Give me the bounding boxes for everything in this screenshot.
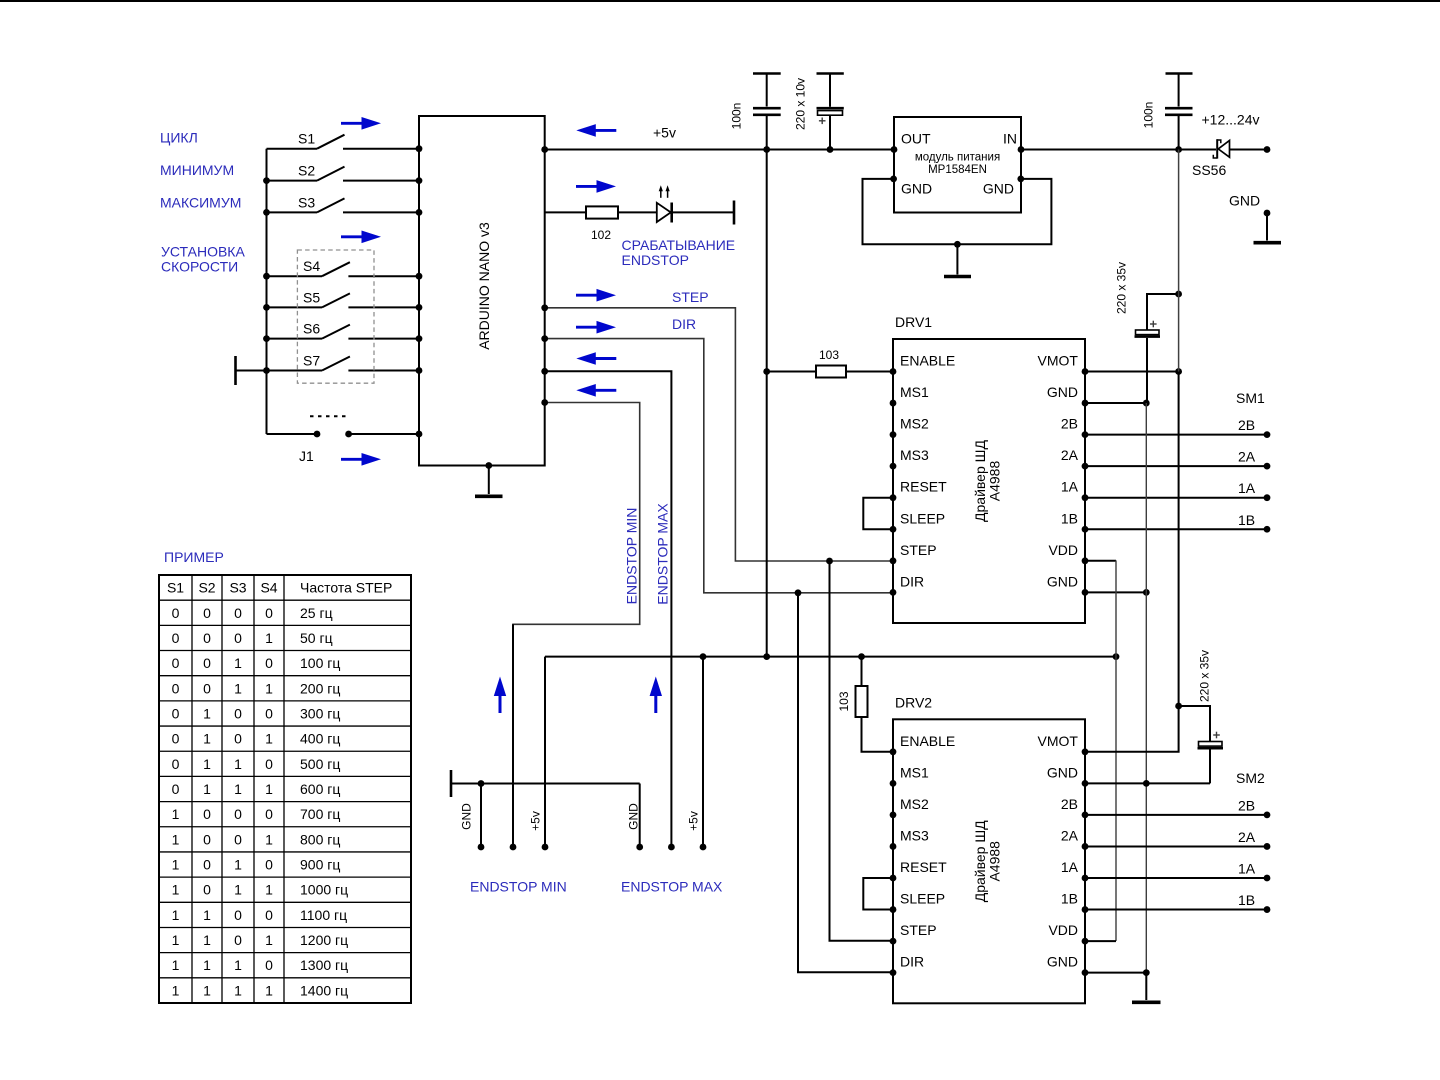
svg-text:1100 гц: 1100 гц	[300, 907, 347, 923]
svg-text:1: 1	[203, 907, 211, 923]
svg-text:1: 1	[172, 831, 180, 847]
svg-text:DIR: DIR	[672, 316, 696, 332]
connector SM1	[1236, 390, 1265, 528]
svg-text:800 гц: 800 гц	[300, 831, 340, 847]
svg-text:GND: GND	[1229, 193, 1260, 209]
svg-text:ENDSTOP MIN: ENDSTOP MIN	[470, 879, 567, 895]
wire DRV2 VDD	[1085, 940, 1116, 942]
svg-text:GND: GND	[901, 181, 932, 197]
wire DRV2 VMOT	[1085, 703, 1182, 752]
svg-text:1: 1	[234, 781, 242, 797]
label СРАБАТЫВАНИЕ ENDSTOP	[622, 237, 736, 268]
svg-text:1: 1	[234, 882, 242, 898]
svg-text:ENABLE: ENABLE	[900, 733, 955, 749]
wire DRV2 1A to SM2	[1085, 875, 1270, 882]
svg-text:J1: J1	[299, 448, 314, 464]
svg-text:MS2: MS2	[900, 796, 929, 812]
svg-text:1: 1	[265, 680, 273, 696]
svg-text:S1: S1	[298, 131, 315, 147]
wire DRV1 GND 2	[1085, 589, 1150, 596]
svg-text:S3: S3	[298, 194, 315, 210]
svg-text:0: 0	[265, 957, 273, 973]
svg-text:1400 гц: 1400 гц	[300, 982, 348, 998]
svg-text:OUT: OUT	[901, 131, 931, 147]
wire GND net	[1145, 403, 1147, 972]
wire DRV2 1B to SM2	[1085, 906, 1270, 913]
label ЦИКЛ	[160, 130, 198, 146]
svg-text:0: 0	[172, 680, 180, 696]
wire DIR link DRV1-DRV2	[795, 589, 893, 972]
svg-text:103: 103	[837, 691, 851, 711]
svg-text:+5v: +5v	[687, 811, 701, 831]
arrow at J1	[341, 453, 381, 466]
svg-text:0: 0	[265, 806, 273, 822]
svg-text:1200 гц: 1200 гц	[300, 932, 348, 948]
svg-text:модуль питания: модуль питания	[915, 152, 1000, 164]
svg-text:S5: S5	[303, 289, 320, 305]
label ENDSTOP MIN vertical	[623, 508, 639, 605]
svg-text:103: 103	[819, 348, 839, 362]
svg-text:1: 1	[265, 831, 273, 847]
svg-text:VDD: VDD	[1048, 922, 1078, 938]
svg-text:ENABLE: ENABLE	[900, 353, 955, 369]
svg-text:220 x 35v: 220 x 35v	[1115, 262, 1129, 314]
svg-text:SM2: SM2	[1236, 770, 1265, 786]
svg-text:0: 0	[234, 932, 242, 948]
svg-text:1: 1	[265, 982, 273, 998]
svg-text:DRV1: DRV1	[895, 314, 932, 330]
svg-text:0: 0	[172, 781, 180, 797]
svg-text:VDD: VDD	[1048, 542, 1078, 558]
svg-text:100n: 100n	[730, 103, 744, 130]
svg-text:GND: GND	[1047, 764, 1078, 780]
svg-text:100n: 100n	[1142, 102, 1156, 129]
switch S7	[267, 353, 423, 374]
connector ENDSTOP MAX	[627, 657, 707, 851]
svg-text:1: 1	[203, 957, 211, 973]
svg-text:0: 0	[234, 831, 242, 847]
svg-text:1: 1	[203, 705, 211, 721]
svg-text:1: 1	[172, 882, 180, 898]
svg-text:DIR: DIR	[900, 954, 924, 970]
svg-text:0: 0	[265, 756, 273, 772]
resistor R1 102	[545, 206, 657, 242]
wire DRV1 VDD	[1085, 560, 1116, 562]
svg-text:УСТАНОВКА: УСТАНОВКА	[161, 244, 245, 260]
svg-text:50 гц: 50 гц	[300, 630, 333, 646]
svg-text:A4988: A4988	[987, 461, 1003, 502]
arrow endstop min in	[576, 384, 616, 397]
svg-text:500 гц: 500 гц	[300, 756, 340, 772]
svg-text:0: 0	[172, 756, 180, 772]
svg-text:0: 0	[265, 605, 273, 621]
svg-text:ARDUINO NANO v3: ARDUINO NANO v3	[476, 222, 492, 350]
svg-text:2B: 2B	[1238, 417, 1255, 433]
svg-text:MS1: MS1	[900, 764, 929, 780]
svg-text:MS3: MS3	[900, 827, 929, 843]
label +5v	[653, 125, 676, 141]
svg-text:0: 0	[203, 680, 211, 696]
arrow endstop min up	[494, 677, 506, 714]
svg-text:100 гц: 100 гц	[300, 655, 340, 671]
svg-text:25 гц: 25 гц	[300, 605, 333, 621]
svg-text:MS1: MS1	[900, 384, 929, 400]
svg-text:1: 1	[172, 932, 180, 948]
svg-text:2B: 2B	[1061, 416, 1078, 432]
svg-text:0: 0	[234, 907, 242, 923]
capacitor C2 220 x 10v	[794, 74, 844, 150]
label ENDSTOP MIN	[470, 879, 567, 895]
svg-text:0: 0	[203, 882, 211, 898]
svg-text:MS2: MS2	[900, 416, 929, 432]
svg-text:1A: 1A	[1238, 861, 1256, 877]
svg-text:+12...24v: +12...24v	[1202, 112, 1260, 128]
svg-text:DRV2: DRV2	[895, 694, 932, 710]
resistor R3 103	[837, 657, 893, 752]
svg-text:2A: 2A	[1238, 449, 1256, 465]
svg-text:1: 1	[234, 756, 242, 772]
wire DRV1 2B to SM1	[1085, 431, 1270, 438]
svg-text:GND: GND	[1047, 573, 1078, 589]
wire DRV1 VMOT	[1085, 368, 1182, 375]
svg-text:2A: 2A	[1238, 829, 1256, 845]
svg-text:MS3: MS3	[900, 447, 929, 463]
ground below module	[944, 244, 971, 276]
svg-text:1: 1	[203, 932, 211, 948]
svg-text:2A: 2A	[1061, 827, 1079, 843]
svg-text:+5v: +5v	[529, 811, 543, 831]
svg-text:S1: S1	[167, 580, 184, 596]
capacitor C4 220 x 35v	[1115, 262, 1183, 403]
capacitor C5 220 x 35v	[1179, 650, 1223, 783]
svg-text:DIR: DIR	[900, 573, 924, 589]
svg-text:0: 0	[172, 731, 180, 747]
wire DRV2 GND 2	[1085, 969, 1150, 976]
svg-text:1: 1	[265, 781, 273, 797]
switch S2	[267, 163, 423, 184]
LED D2	[657, 185, 734, 222]
svg-text:700 гц: 700 гц	[300, 806, 340, 822]
svg-text:1: 1	[234, 857, 242, 873]
IC U2 power module MP1584EN	[890, 117, 1024, 213]
svg-text:0: 0	[203, 605, 211, 621]
svg-text:STEP: STEP	[900, 922, 937, 938]
svg-text:1: 1	[265, 882, 273, 898]
svg-text:VMOT: VMOT	[1038, 733, 1079, 749]
label УСТАНОВКА СКОРОСТИ	[161, 244, 245, 275]
svg-text:0: 0	[265, 705, 273, 721]
wire DRV1 1A to SM1	[1085, 494, 1270, 501]
svg-text:IN: IN	[1003, 131, 1017, 147]
svg-text:220 x 35v: 220 x 35v	[1198, 650, 1212, 702]
svg-text:0: 0	[234, 605, 242, 621]
svg-text:200 гц: 200 гц	[300, 680, 340, 696]
svg-text:1: 1	[234, 655, 242, 671]
IC U1 ARDUINO NANO v3	[419, 116, 545, 466]
label +12...24v	[1202, 112, 1260, 128]
svg-text:1: 1	[234, 680, 242, 696]
svg-text:SM1: SM1	[1236, 390, 1265, 406]
label STEP	[672, 289, 709, 305]
arrow endstop max up	[650, 677, 662, 714]
wire +5v distribution	[545, 653, 1119, 660]
svg-text:1: 1	[172, 982, 180, 998]
svg-text:0: 0	[172, 630, 180, 646]
svg-text:Частота STEP: Частота STEP	[300, 580, 392, 596]
IC DRV1 A4988	[863, 314, 1088, 623]
svg-text:RESET: RESET	[900, 859, 947, 875]
svg-text:220 x 10v: 220 x 10v	[794, 78, 808, 130]
wire STEP link DRV1-DRV2	[826, 558, 893, 941]
svg-text:1: 1	[172, 957, 180, 973]
svg-text:GND: GND	[1047, 384, 1078, 400]
svg-text:1B: 1B	[1061, 510, 1078, 526]
svg-text:400 гц: 400 гц	[300, 731, 340, 747]
ground below Arduino	[475, 462, 503, 496]
arrow endstop max in	[576, 352, 616, 365]
arrow on +5v rail	[576, 124, 616, 137]
svg-text:0: 0	[265, 907, 273, 923]
wire +5v feed down	[763, 150, 770, 657]
wire DRV2 2B to SM2	[1085, 812, 1270, 819]
wire DRV2 GND	[1085, 780, 1210, 787]
svg-text:0: 0	[203, 857, 211, 873]
svg-text:СКОРОСТИ: СКОРОСТИ	[161, 259, 238, 275]
terminal GND input	[1229, 193, 1281, 243]
dashed box S4-S7	[297, 250, 374, 383]
wire DRV1 2A to SM1	[1085, 463, 1270, 470]
svg-text:0: 0	[234, 806, 242, 822]
jumper J1	[267, 416, 423, 464]
terminal LED cathode	[733, 201, 736, 225]
label ENDSTOP MAX vertical	[654, 503, 670, 605]
svg-text:GND: GND	[983, 181, 1014, 197]
svg-text:ЦИКЛ: ЦИКЛ	[160, 130, 198, 146]
svg-text:1: 1	[265, 630, 273, 646]
svg-text:0: 0	[203, 831, 211, 847]
svg-text:S2: S2	[198, 580, 215, 596]
svg-text:1: 1	[234, 957, 242, 973]
svg-text:ПРИМЕР: ПРИМЕР	[164, 549, 224, 565]
switch S5	[267, 289, 423, 310]
svg-text:S3: S3	[229, 580, 246, 596]
svg-text:МИНИМУМ: МИНИМУМ	[160, 162, 234, 178]
arrow above S1	[341, 117, 381, 130]
svg-text:SLEEP: SLEEP	[900, 891, 945, 907]
svg-text:+5v: +5v	[653, 125, 676, 141]
svg-text:GND: GND	[627, 803, 641, 830]
svg-text:0: 0	[234, 630, 242, 646]
wire VMOT net	[1178, 150, 1180, 707]
label МАКСИМУМ	[160, 195, 241, 211]
diode D1 SS56 schottky	[1192, 139, 1270, 178]
svg-text:МАКСИМУМ: МАКСИМУМ	[160, 195, 241, 211]
wire DRV1 GND	[1085, 400, 1150, 407]
svg-text:0: 0	[234, 731, 242, 747]
svg-text:600 гц: 600 гц	[300, 781, 340, 797]
terminal common input	[236, 356, 267, 385]
switch S4	[267, 258, 423, 279]
wire DRV1 1B to SM1	[1085, 526, 1270, 533]
label ENDSTOP MAX	[621, 879, 723, 895]
svg-text:СРАБАТЫВАНИЕ: СРАБАТЫВАНИЕ	[622, 237, 736, 253]
svg-text:0: 0	[265, 655, 273, 671]
svg-text:1B: 1B	[1061, 891, 1078, 907]
wire VDD net	[1115, 560, 1117, 941]
arrow on LED branch	[576, 180, 616, 193]
svg-text:0: 0	[172, 655, 180, 671]
svg-text:1: 1	[265, 731, 273, 747]
capacitor C1 100n	[730, 74, 781, 150]
svg-text:1000 гц: 1000 гц	[300, 882, 348, 898]
svg-text:1: 1	[172, 907, 180, 923]
wire ENDSTOP MAX net	[541, 368, 671, 847]
label МИНИМУМ	[160, 162, 234, 178]
svg-text:0: 0	[234, 705, 242, 721]
arrow above S4	[341, 231, 381, 244]
capacitor C3 100n	[1142, 74, 1193, 150]
resistor R2 103	[767, 348, 893, 378]
svg-text:S4: S4	[303, 258, 320, 274]
switch S6	[267, 321, 423, 342]
svg-text:1A: 1A	[1061, 859, 1079, 875]
arrow STEP	[576, 289, 616, 302]
switch S3	[267, 194, 423, 215]
svg-text:0: 0	[172, 705, 180, 721]
svg-text:ENDSTOP MAX: ENDSTOP MAX	[621, 879, 723, 895]
wire rail right of module	[1021, 146, 1216, 153]
svg-text:ENDSTOP: ENDSTOP	[622, 252, 689, 268]
svg-text:ENDSTOP MIN: ENDSTOP MIN	[623, 508, 639, 605]
wire DIR net	[541, 335, 893, 593]
svg-text:1300 гц: 1300 гц	[300, 957, 348, 973]
svg-text:1: 1	[172, 806, 180, 822]
svg-text:1: 1	[172, 857, 180, 873]
svg-text:2A: 2A	[1061, 447, 1079, 463]
svg-text:1B: 1B	[1238, 512, 1255, 528]
svg-text:VMOT: VMOT	[1038, 353, 1079, 369]
svg-text:1: 1	[203, 731, 211, 747]
svg-text:2B: 2B	[1061, 796, 1078, 812]
svg-text:0: 0	[172, 605, 180, 621]
svg-text:1A: 1A	[1238, 480, 1256, 496]
svg-text:1: 1	[265, 932, 273, 948]
svg-text:1: 1	[203, 982, 211, 998]
wire +5v rail	[541, 146, 894, 153]
svg-text:1A: 1A	[1061, 479, 1079, 495]
svg-text:A4988: A4988	[987, 841, 1003, 882]
svg-text:0: 0	[203, 655, 211, 671]
svg-text:SLEEP: SLEEP	[900, 510, 945, 526]
svg-text:STEP: STEP	[672, 289, 709, 305]
connector ENDSTOP MIN	[460, 624, 549, 850]
svg-text:1: 1	[203, 756, 211, 772]
svg-text:MP1584EN: MP1584EN	[928, 164, 987, 176]
wire STEP net	[541, 304, 893, 561]
svg-text:S6: S6	[303, 321, 320, 337]
wire DRV2 2A to SM2	[1085, 843, 1270, 850]
svg-text:SS56: SS56	[1192, 162, 1226, 178]
connector SM2	[1236, 770, 1265, 908]
switch S1	[267, 131, 423, 152]
label ПРИМЕР	[164, 549, 224, 565]
svg-text:GND: GND	[460, 803, 474, 830]
svg-text:0: 0	[203, 630, 211, 646]
wire ENDSTOP MIN net	[513, 399, 640, 847]
svg-text:102: 102	[591, 228, 611, 242]
svg-text:RESET: RESET	[900, 479, 947, 495]
svg-text:S4: S4	[260, 580, 277, 596]
svg-text:STEP: STEP	[900, 542, 937, 558]
svg-text:1: 1	[234, 982, 242, 998]
svg-text:1B: 1B	[1238, 892, 1255, 908]
svg-text:2B: 2B	[1238, 797, 1255, 813]
label DIR	[672, 316, 696, 332]
wire module GND loop	[863, 179, 1052, 248]
svg-text:S7: S7	[303, 353, 320, 369]
svg-text:0: 0	[203, 806, 211, 822]
svg-text:GND: GND	[1047, 954, 1078, 970]
svg-text:1: 1	[203, 781, 211, 797]
ground bottom	[1132, 973, 1161, 1003]
svg-text:900 гц: 900 гц	[300, 857, 340, 873]
svg-text:0: 0	[265, 857, 273, 873]
wire switch common bus	[263, 149, 270, 434]
svg-text:300 гц: 300 гц	[300, 705, 340, 721]
arrow DIR	[576, 321, 616, 334]
svg-text:ENDSTOP MAX: ENDSTOP MAX	[654, 503, 670, 605]
table frequency example	[159, 575, 411, 1003]
terminal endstop GND bar	[451, 770, 640, 797]
IC DRV2 A4988	[863, 694, 1088, 1003]
svg-text:S2: S2	[298, 163, 315, 179]
